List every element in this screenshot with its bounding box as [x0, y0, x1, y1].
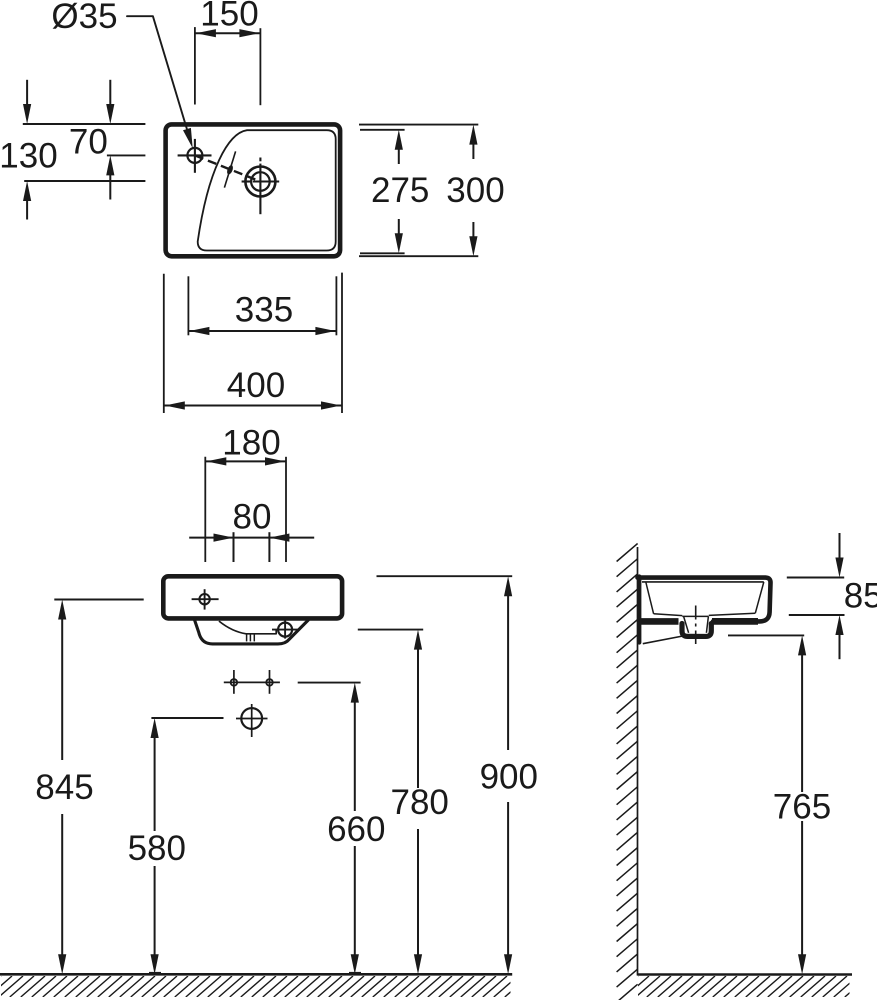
- front view: washbasin rim (rectangle): [163, 576, 342, 618]
- dim 180 right extension line: [285, 457, 287, 562]
- side: underside thin diagonal: [643, 636, 684, 644]
- svg-text:Ø35: Ø35: [51, 0, 117, 36]
- dim 85 top extension line: [787, 577, 844, 579]
- front: overflow crosshair: [272, 629, 298, 631]
- side: underside rim bar (left): [639, 618, 679, 625]
- side: drain centerline (dash-dot): [695, 606, 697, 645]
- plan: dashed centerline faucet to drain: [195, 155, 261, 181]
- leader arrowhead: [183, 128, 193, 148]
- dim 400 left extension line: [163, 274, 165, 413]
- dim 150 line and arrows: [195, 32, 261, 34]
- svg-text:85: 85: [844, 577, 877, 616]
- dim 70 arrows: [109, 80, 111, 106]
- ext line: drain center (left): [24, 180, 145, 182]
- plan: drain crosshair: [242, 180, 252, 182]
- plan: oval slot mark on dashed line: [226, 164, 234, 175]
- front: overflow hole circle: [278, 623, 292, 637]
- dim 335 right extension line: [335, 276, 337, 335]
- ext line: basin top edge (left): [23, 123, 146, 125]
- side: basin top rim and right edge: [638, 578, 771, 622]
- dim 180 left extension line: [204, 457, 206, 562]
- side: basin back edge on wall: [637, 577, 641, 643]
- front: right fixing hole vertical line: [269, 670, 271, 694]
- dim 765 extension line: [728, 634, 804, 636]
- side: drain cup outer: [682, 624, 711, 637]
- svg-text:150: 150: [200, 0, 258, 34]
- front: fixing holes below basin: [231, 679, 238, 686]
- ext line: basin top edge (right): [359, 124, 478, 126]
- ext line: inner bowl bottom (right): [360, 252, 405, 254]
- side: bowl inner thin lines: [642, 581, 764, 583]
- svg-text:900: 900: [480, 757, 538, 796]
- dim 335 left extension line: [187, 276, 189, 335]
- front: faucet hole cross circle: [199, 594, 209, 604]
- svg-text:845: 845: [35, 768, 93, 807]
- dim 80 left tick: [233, 532, 235, 562]
- front: drain grate lines: [246, 634, 248, 642]
- dim 85 arrows: [839, 533, 841, 560]
- dim 660 extension line: [298, 682, 361, 684]
- svg-text:335: 335: [235, 291, 293, 330]
- floor tick at 580 dim foot: [149, 972, 161, 975]
- dim 300 arrows: [469, 125, 477, 145]
- plan: slot perpendicular centerline: [224, 151, 235, 187]
- svg-text:765: 765: [773, 788, 831, 827]
- front: bowl under rim (outer): [194, 620, 308, 644]
- ext line: faucet hole center (left): [107, 154, 145, 156]
- side view: wall hatching: [617, 544, 638, 1000]
- svg-text:180: 180: [222, 424, 280, 463]
- side: wall face line: [637, 547, 639, 976]
- front: drain outlet crosshair: [236, 718, 268, 720]
- floor line (left): [0, 973, 512, 976]
- ext line: inner bowl top (right): [360, 129, 405, 131]
- dim 150 left extension line: [194, 27, 196, 104]
- plan: faucet hole crosshair: [178, 154, 212, 156]
- dim 580 extension line: [151, 717, 223, 719]
- dim 80 arrows (outside, pointing in): [214, 534, 234, 542]
- dim 400 right extension line: [341, 273, 343, 413]
- plan view: washbasin outer rim: [166, 124, 341, 256]
- dim 80 line: [189, 537, 314, 539]
- svg-text:780: 780: [390, 783, 448, 822]
- svg-text:275: 275: [371, 171, 429, 210]
- front: faucet crosshair: [192, 598, 219, 600]
- leader line for Ø35: [127, 16, 190, 140]
- svg-text:580: 580: [128, 829, 186, 868]
- plan view: inner basin bowl outline: [198, 130, 336, 250]
- svg-text:130: 130: [0, 137, 58, 176]
- dim 275 arrows: [395, 130, 403, 150]
- svg-text:70: 70: [69, 123, 108, 162]
- svg-text:300: 300: [446, 171, 504, 210]
- svg-text:80: 80: [233, 497, 272, 536]
- plan: drain inner circle: [251, 172, 270, 191]
- floor line (right): [638, 973, 853, 976]
- dim 150 right extension line: [259, 28, 261, 105]
- dim 180 line and arrows: [205, 460, 286, 462]
- dim 130 arrows: [26, 80, 28, 106]
- dim 780 extension line: [358, 629, 423, 631]
- dim 335 line and arrows: [188, 330, 336, 332]
- plan: drain outer circle: [245, 167, 275, 197]
- side: underside rim bar (right): [712, 618, 758, 625]
- dim 85 bottom extension line: [789, 614, 845, 616]
- plan: faucet hole circle (Ø35): [187, 148, 202, 163]
- floor tick at 660 dim foot: [349, 972, 361, 975]
- svg-text:400: 400: [227, 366, 285, 405]
- ext line: basin bottom edge (right): [359, 255, 478, 257]
- svg-text:660: 660: [327, 810, 385, 849]
- dim 400 line and arrows: [164, 405, 342, 407]
- front: left fixing hole vertical line: [233, 670, 235, 694]
- dim 80 right tick: [268, 532, 270, 562]
- dim 900 extension line: [377, 575, 513, 577]
- front: fixing holes horizontal centerline: [224, 681, 280, 683]
- dim 845 extension line: [54, 599, 143, 601]
- front: drain outlet circle: [241, 708, 262, 729]
- front: bowl inner line: [220, 622, 277, 634]
